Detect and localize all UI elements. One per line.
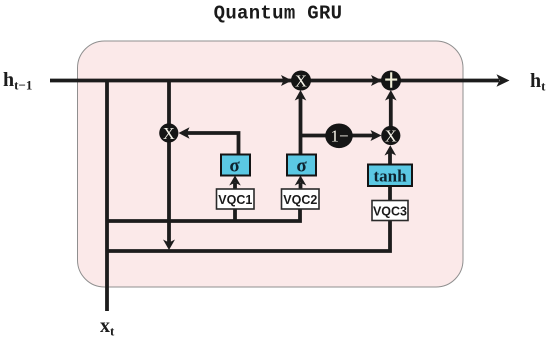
enclosure cell body	[78, 41, 464, 287]
node X2 multiply	[159, 123, 178, 143]
wire VQC3 to tanh	[388, 186, 392, 201]
node X3 multiply	[381, 126, 400, 146]
svg-text:σ: σ	[229, 156, 240, 177]
wire bus2 to VQC3	[107, 220, 390, 251]
svg-text:ht−1: ht−1	[3, 69, 32, 93]
svg-text:VQC3: VQC3	[373, 205, 407, 219]
svg-text:σ: σ	[296, 156, 307, 177]
svg-text:X: X	[163, 124, 175, 143]
wire tanh arrow to X3	[385, 145, 397, 164]
svg-text:X: X	[385, 127, 397, 146]
title Quantum GRU	[214, 3, 343, 25]
box VQC2	[282, 189, 320, 209]
svg-text:X: X	[295, 72, 307, 91]
wire sigma1 elbow into X2	[179, 127, 239, 155]
svg-text:VQC1: VQC1	[218, 193, 252, 207]
wire arrowhead into plus	[371, 75, 382, 86]
wire 1-minus arrow to X3	[352, 130, 382, 141]
svg-text:tanh: tanh	[373, 167, 407, 186]
box sigma1	[221, 155, 250, 177]
wire bus1 concat to VQC2	[107, 208, 300, 221]
node X1 multiply	[291, 71, 311, 91]
box VQC1	[217, 189, 255, 209]
wire output arrowhead	[497, 74, 510, 86]
box sigma2	[287, 155, 316, 177]
wire vertical input x_t / h_t-1 tap	[105, 81, 109, 312]
node plus add	[381, 71, 401, 91]
box tanh	[368, 165, 412, 187]
svg-text:ht: ht	[530, 70, 546, 94]
node 1-minus	[325, 124, 353, 149]
svg-text:xt: xt	[100, 315, 115, 338]
wire VQC1 stub to bus1	[233, 208, 237, 221]
label x_t	[100, 315, 115, 338]
wire VQC1 arrow to sigma1	[229, 176, 241, 190]
wire VQC2 arrow to sigma2	[295, 176, 307, 190]
wire X3 up to plus	[385, 90, 397, 127]
wire sigma2 up to X1	[295, 90, 307, 155]
svg-text:Quantum GRU: Quantum GRU	[214, 3, 343, 25]
label h_t	[530, 70, 546, 94]
wire vertical through X2 to bus2	[163, 81, 175, 251]
svg-text:VQC2: VQC2	[283, 193, 317, 207]
wire branch to 1-minus	[301, 134, 331, 138]
label h_t-1	[3, 69, 32, 93]
svg-text:1−: 1−	[330, 127, 348, 146]
wire main h line	[50, 79, 499, 83]
box VQC3	[372, 201, 408, 221]
wire arrowhead into X1	[281, 75, 292, 86]
